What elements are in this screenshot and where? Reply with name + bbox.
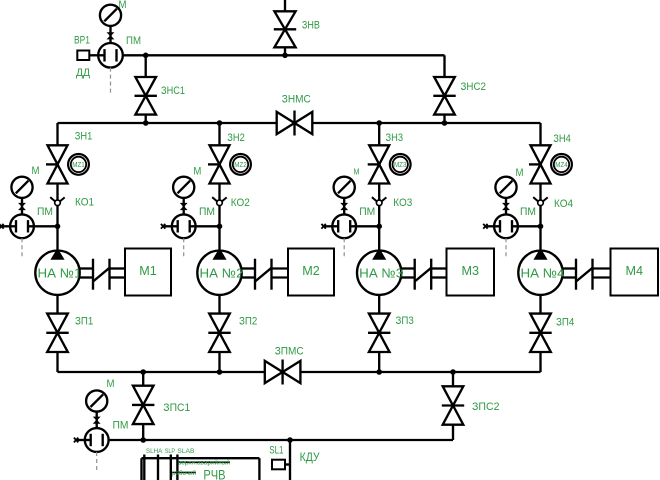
svg-text:М: М	[354, 168, 360, 177]
wire: pump suction bus2 left	[58, 122, 277, 124]
wire: ПМ to pump line	[350, 225, 379, 227]
valve ЗНВ	[274, 11, 295, 29]
coupling pump1-motor1	[79, 267, 93, 269]
ПМ membrane ticks	[90, 434, 92, 446]
svg-text:М2: М2	[302, 263, 320, 278]
svg-text:ЗНС1: ЗНС1	[161, 85, 185, 97]
svg-text:ЗНВ: ЗНВ	[302, 19, 320, 31]
wire: ЗНС2 to bus2	[443, 115, 445, 123]
svg-text:М4: М4	[626, 263, 644, 278]
wire: gauge stem	[183, 184, 185, 216]
motor drive МЗ4 indicator	[551, 154, 572, 175]
node: ПМ tap pump 1	[55, 224, 61, 230]
wire: ЗПС1 to bus4	[142, 424, 144, 440]
level sensor line SLHA	[143, 455, 145, 480]
valve ЗП3	[369, 314, 390, 333]
check valve КО2	[212, 197, 218, 202]
svg-text:НА №4: НА №4	[521, 265, 565, 280]
node: ПМ tap pump 4	[538, 224, 544, 230]
valve ЗН1 (motorized)	[48, 145, 68, 164]
svg-text:MZ1: MZ1	[72, 162, 85, 169]
wire: ЗНВ to suction header	[284, 47, 286, 55]
svg-text:ЗПС1: ЗПС1	[163, 402, 190, 414]
valve ЗНМС	[277, 112, 295, 134]
pressure transmitter ПМ circle	[494, 214, 518, 238]
svg-text:М: М	[193, 166, 201, 178]
svg-text:ПМ: ПМ	[37, 206, 53, 218]
node: ПМ tap pump 2	[217, 224, 223, 230]
wire: suction header bus1	[117, 54, 445, 56]
level sensor line 4	[176, 455, 178, 480]
manometer М gauge	[495, 177, 516, 198]
svg-text:М: М	[119, 0, 127, 11]
coupling pump4-motor4	[562, 267, 576, 269]
dashed impulse line	[505, 238, 507, 259]
wire: bus2 drop to ЗН1	[56, 123, 58, 145]
node: bus2-ЗН2	[217, 120, 223, 126]
svg-text:КО2: КО2	[231, 197, 250, 209]
manometer М gauge	[334, 177, 355, 198]
node: ПМ tap pump 3	[376, 224, 382, 230]
dashed impulse line	[21, 238, 23, 259]
pump НА №2	[197, 251, 241, 295]
level line верхн.аварийный	[177, 461, 230, 463]
wire: ВР1 to ПМ	[89, 54, 104, 56]
motor М4	[611, 249, 659, 296]
wire: inlet from top	[284, 0, 286, 11]
valve ЗН4 (motorized)	[531, 145, 551, 164]
wire: discharge bus3 left	[58, 371, 265, 373]
motor М3	[447, 249, 495, 296]
wire: bus2 drop to ЗН3	[378, 123, 380, 145]
svg-text:верхн.аварийный: верхн.аварийный	[178, 458, 230, 466]
pressure transmitter ПМ circle	[85, 428, 109, 452]
wire: ПМ left stub with closed end	[162, 225, 178, 227]
wire: bus2 drop to ЗН4	[539, 123, 541, 145]
svg-text:КДУ: КДУ	[300, 450, 320, 464]
node: bus2-ЗНС2	[442, 120, 448, 126]
wire: discharge bus3 right	[300, 371, 540, 373]
wire: КО2 to pump НА2	[218, 206, 220, 251]
manometer М gauge	[86, 390, 107, 411]
wire: pump НА2 to ЗП2	[218, 295, 220, 314]
wire: bus3 to ЗПС2	[452, 372, 454, 386]
wire: ПМ left stub with closed end	[1, 225, 17, 227]
svg-text:SLAB: SLAB	[177, 448, 194, 455]
valve (mini) on gauge stem	[341, 203, 347, 206]
ПМ membrane ticks	[337, 220, 339, 232]
svg-text:SLP: SLP	[165, 448, 175, 455]
svg-text:М3: М3	[462, 263, 480, 278]
wire: ПМ to pump line	[512, 225, 541, 227]
level line рабочий	[171, 471, 196, 473]
dashed impulse line	[343, 238, 345, 259]
wire: pump НА4 to ЗП4	[539, 295, 541, 314]
wire: КО4 to pump НА4	[539, 206, 541, 251]
wire: ПМ left stub with closed end	[485, 225, 501, 227]
motor М1	[125, 249, 171, 296]
svg-text:ЗНС2: ЗНС2	[461, 81, 487, 93]
coupling pump2-motor2	[241, 267, 255, 269]
wire: return bus4	[103, 439, 453, 441]
wire: ЗН1 to КО1	[56, 184, 58, 201]
ПМ membrane ticks	[499, 220, 501, 232]
wire: ЗП4 to bus3	[539, 352, 541, 372]
dashed impulse line	[96, 452, 98, 473]
level sensor line SLAB	[170, 455, 172, 480]
manometer М gauge	[173, 177, 194, 198]
valve ЗНС1	[135, 77, 156, 96]
wire: ЗН2 to КО2	[218, 184, 220, 201]
wire: КО3 to pump НА3	[378, 206, 380, 251]
wire: ЗП2 to bus3	[218, 352, 220, 372]
node: bus1-ЗНВ	[282, 53, 288, 59]
manometer М gauge	[11, 177, 32, 198]
wire: drop to КДУ	[289, 440, 291, 480]
motor М2	[288, 249, 334, 296]
valve ЗН3 (motorized)	[369, 145, 389, 164]
coupling pump3-motor3	[401, 267, 415, 269]
svg-text:КО3: КО3	[393, 197, 412, 209]
level sensor line SLP	[157, 455, 159, 480]
reservoir РЧВ outline	[142, 457, 260, 459]
svg-text:ЗН2: ЗН2	[227, 132, 245, 144]
node: bus2-ЗН3	[376, 120, 382, 126]
check valve КО3	[372, 197, 378, 202]
svg-text:ПМ: ПМ	[126, 35, 141, 47]
node: bus3-ЗПС1	[140, 369, 146, 375]
wire: pump НА3 to ЗП3	[378, 295, 380, 314]
wire: bus1 right corner down to ЗНС2	[443, 55, 445, 77]
node: bus3-ЗП3	[376, 369, 382, 375]
motor drive МЗ1 indicator	[68, 154, 89, 175]
svg-text:НА №2: НА №2	[200, 265, 244, 280]
valve ЗП2	[209, 314, 230, 333]
pressure transmitter ПМ circle	[10, 214, 34, 238]
svg-text:SLHA: SLHA	[146, 448, 163, 455]
wire: bus1 to ЗНС1	[145, 55, 147, 77]
wire: ПМ to pump line	[190, 225, 220, 227]
svg-text:М: М	[516, 167, 524, 179]
wire: ЗП1 to bus3	[56, 352, 58, 372]
svg-text:ПМ: ПМ	[359, 206, 375, 218]
svg-text:М1: М1	[139, 263, 157, 278]
valve ЗПМС	[265, 361, 283, 383]
node: bus4-КДУ drop	[287, 437, 293, 443]
wire: gauge stem	[96, 398, 98, 430]
svg-text:SL1: SL1	[269, 445, 283, 457]
svg-text:ЗНМС: ЗНМС	[282, 94, 311, 106]
valve (mini) on top-left gauge stem	[108, 33, 114, 36]
svg-text:М: М	[107, 378, 115, 390]
svg-text:ДД: ДД	[76, 67, 91, 79]
valve ЗП1	[47, 314, 68, 333]
pressure transmitter ПМ circle	[172, 214, 196, 238]
wire: gauge stem	[505, 184, 507, 216]
svg-text:ЗП4: ЗП4	[556, 317, 574, 329]
check valve КО1	[50, 197, 56, 202]
svg-text:НА №3: НА №3	[359, 265, 403, 280]
wire: ЗПС2 to bus4	[452, 425, 454, 440]
node: bus3-ЗПС2	[450, 369, 456, 375]
valve (mini) on gauge stem	[503, 203, 509, 206]
svg-text:ВР1: ВР1	[74, 35, 90, 47]
wire: КО1 to pump НА1	[56, 206, 58, 251]
wire: pump suction bus2 right	[312, 122, 540, 124]
svg-text:ЗПС2: ЗПС2	[472, 401, 500, 413]
wire: gauge stem	[343, 184, 345, 216]
wire: ЗН4 to КО4	[539, 184, 541, 201]
valve ЗПС1	[133, 386, 154, 405]
node: bus4-ЗПС1	[140, 437, 146, 443]
wire: ПМ to pump line	[102, 439, 104, 441]
wire: ЗН3 to КО3	[378, 184, 380, 201]
svg-text:ЗП2: ЗП2	[239, 315, 257, 327]
svg-text:рабочий: рабочий	[172, 469, 196, 477]
svg-text:ЗН4: ЗН4	[553, 133, 571, 145]
svg-text:КО4: КО4	[554, 198, 573, 210]
svg-text:КО1: КО1	[75, 197, 94, 209]
valve (mini) on gauge stem	[181, 203, 187, 206]
svg-text:ПМ: ПМ	[199, 206, 215, 218]
wire: ПМ left stub with closed end	[75, 439, 91, 441]
wire: pump НА1 to ЗП1	[56, 295, 58, 314]
check valve КО4	[533, 197, 539, 202]
valve (mini) on gauge stem	[94, 417, 100, 420]
valve ЗП4	[530, 314, 551, 333]
svg-text:ЗП3: ЗП3	[396, 315, 414, 327]
ПМ membrane ticks	[177, 220, 179, 232]
svg-text:ПМ: ПМ	[113, 420, 129, 432]
wire: gauge stem	[21, 184, 23, 216]
pump НА №1	[35, 251, 79, 295]
svg-text:ЗП1: ЗП1	[75, 316, 93, 328]
wire: gauge stem top-left	[109, 27, 111, 44]
svg-text:ЗН3: ЗН3	[386, 132, 404, 144]
wire: ЗНС1 to bus2	[145, 115, 147, 123]
motor drive МЗ3 indicator	[390, 154, 411, 175]
wire: SL1 stub	[285, 463, 290, 465]
ПМ membrane ticks	[15, 220, 17, 232]
node: bus1-ЗНС1	[143, 53, 149, 59]
svg-text:MZ3: MZ3	[394, 162, 407, 169]
valve ЗНС2	[434, 77, 455, 96]
pump НА №3	[357, 251, 401, 295]
ПМ membrane ticks top-left	[103, 49, 105, 61]
wire: bus3 to ЗПС1	[142, 372, 144, 386]
svg-text:ПМ: ПМ	[520, 206, 536, 218]
valve ЗН2 (motorized)	[210, 145, 230, 164]
motor drive МЗ2 indicator	[230, 154, 251, 175]
dashed impulse line	[183, 238, 185, 259]
svg-text:М: М	[32, 165, 40, 177]
svg-text:ЗН1: ЗН1	[75, 130, 93, 142]
sensor ВР1/ДД box	[77, 51, 89, 61]
node: bus3-ЗП2	[217, 369, 223, 375]
svg-text:ЗПМС: ЗПМС	[275, 346, 304, 358]
pressure transmitter ПМ circle	[332, 214, 356, 238]
svg-text:РЧВ: РЧВ	[203, 467, 225, 480]
wire: bus2 drop to ЗН2	[218, 123, 220, 145]
manometer М top-left	[100, 5, 121, 26]
svg-text:MZ4: MZ4	[555, 162, 568, 169]
wire: ПМ to pump line	[28, 225, 58, 227]
valve ЗПС2	[443, 386, 464, 405]
wire: ЗП3 to bus3	[378, 352, 380, 372]
dashed impulse line top-left	[110, 68, 112, 93]
level switch SL1	[272, 460, 285, 470]
pressure transmitter ПМ top-left	[98, 43, 123, 68]
svg-text:MZ2: MZ2	[234, 162, 247, 169]
svg-text:НА №1: НА №1	[38, 265, 82, 280]
node: bus2-ЗНС1	[143, 120, 149, 126]
valve (mini) on gauge stem	[19, 203, 25, 206]
wire: ПМ left stub with closed end	[323, 225, 339, 227]
pump НА №4	[518, 251, 562, 295]
